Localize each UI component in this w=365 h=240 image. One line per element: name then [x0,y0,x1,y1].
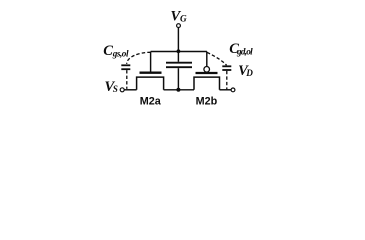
label VG [171,8,188,24]
svg-text:M2a: M2a [140,96,162,108]
capacitor Cgs,ol (left overlap) [121,52,150,89]
svg-text:C: C [103,43,113,59]
wire bottom node M2a drain to M2b source [164,89,194,91]
wire M2b drain to VD [220,89,232,91]
terminal VD [231,88,235,92]
label VS [105,79,118,95]
transistor M2b [194,52,220,90]
terminal VS [120,88,124,92]
svg-text:S: S [113,84,118,94]
terminal VG [177,24,181,28]
label Cgd,ol [229,41,253,57]
node bottom junction [176,88,180,92]
capacitor Cgd,ol (right overlap) [207,52,231,89]
node gate junction [177,49,181,53]
transistor M2a [137,52,164,90]
label Cgs,ol [103,43,129,59]
wire VG lead [177,28,179,52]
svg-text:gd,ol: gd,ol [236,47,253,57]
label VD [238,63,253,79]
svg-text:gs,ol: gs,ol [112,48,129,58]
wire VS to M2a source [124,89,136,91]
svg-text:G: G [180,13,187,23]
wire gate rail [151,51,207,53]
svg-text:M2b: M2b [196,96,218,108]
svg-text:D: D [245,68,253,78]
capacitor C intrinsic (center) [166,52,192,90]
